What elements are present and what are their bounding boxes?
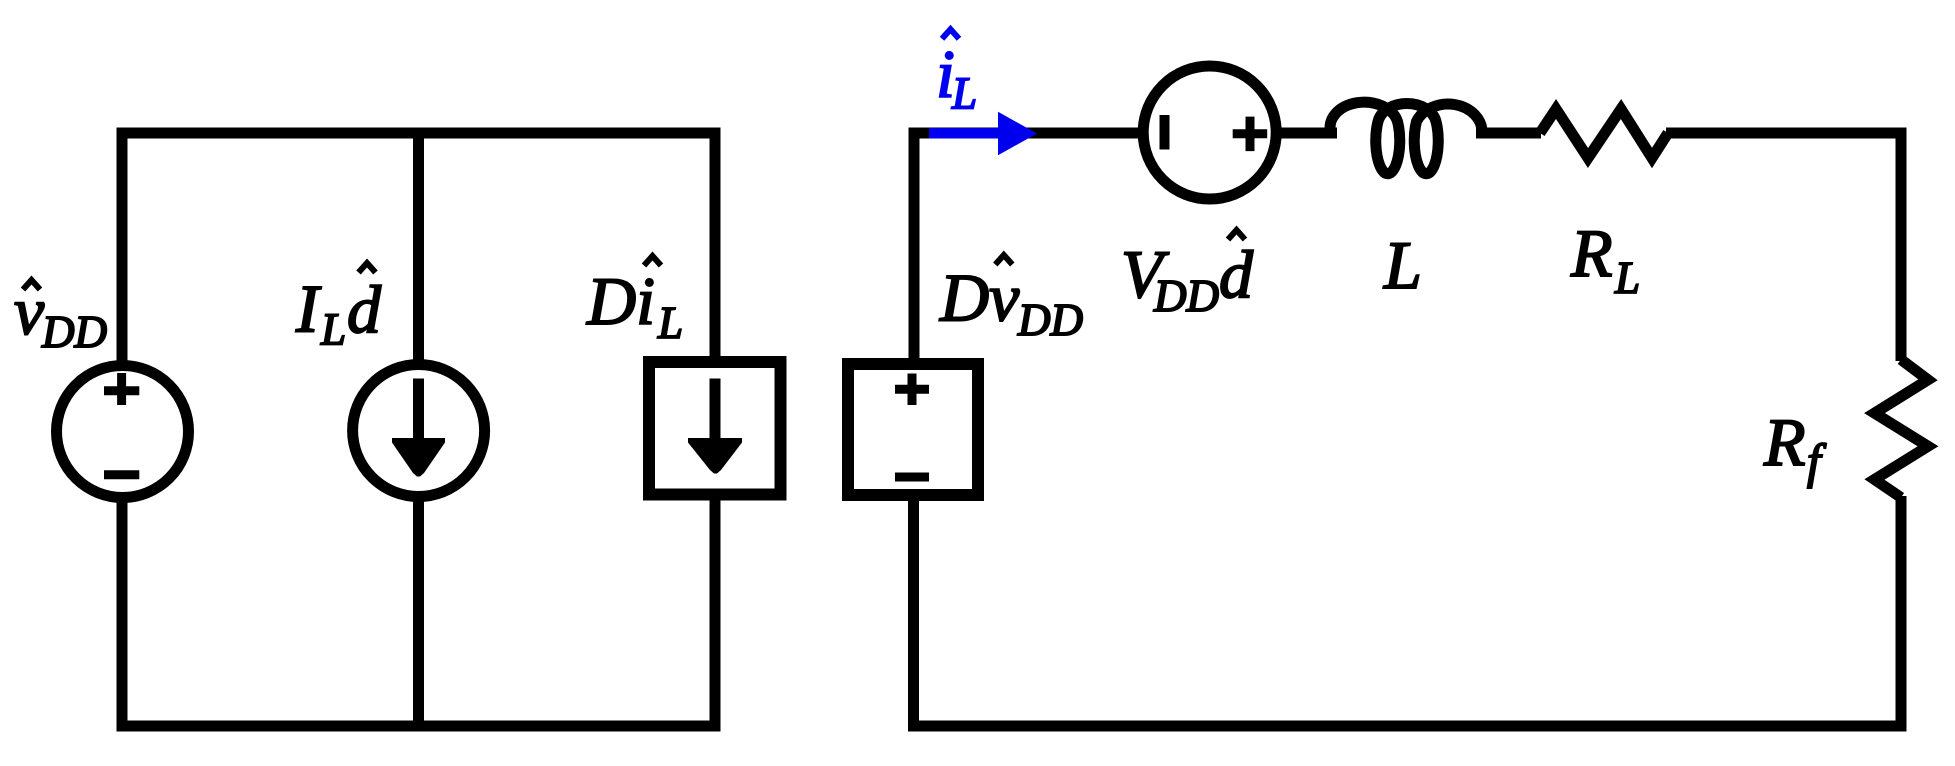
wire middle branch lower xyxy=(413,496,424,732)
svg-text:v: v xyxy=(14,273,45,349)
svg-text:R: R xyxy=(1763,404,1806,480)
dependent source arrow xyxy=(710,379,721,445)
wire right branch lower of right circuit xyxy=(1896,496,1907,732)
svg-text:L: L xyxy=(1614,253,1640,303)
svg-text:I: I xyxy=(295,271,322,347)
label DiL hat xyxy=(644,256,661,266)
wire resistor to top-right corner xyxy=(1666,128,1907,139)
resistor RL zigzag xyxy=(1540,109,1668,158)
dependent current source DiL: square box xyxy=(649,362,781,495)
svg-text:Dv: Dv xyxy=(939,260,1020,336)
wire inductor to resistor xyxy=(1476,128,1541,139)
box V minus sign xyxy=(895,473,929,482)
wire right branch upper of right circuit xyxy=(1896,128,1907,362)
wire right-circuit left branch upper xyxy=(909,128,920,365)
wire left branch upper xyxy=(117,128,128,367)
blue current arrow iL xyxy=(929,112,1037,156)
wire left-loop top xyxy=(117,128,721,139)
dependent voltage source DvDD: square box xyxy=(848,364,978,495)
svg-text:d: d xyxy=(347,272,382,348)
voltage source VDDd: circle xyxy=(1143,66,1276,199)
label DvDD hat xyxy=(995,255,1012,265)
svg-text:DD: DD xyxy=(1153,271,1219,321)
wire left branch lower xyxy=(117,497,128,732)
svg-text:Di: Di xyxy=(586,263,655,339)
svg-text:L: L xyxy=(657,298,683,348)
independent current source ILd: circle xyxy=(353,365,485,497)
svg-text:L: L xyxy=(1383,227,1422,303)
wire right-circuit left branch lower xyxy=(908,495,919,732)
current source I1 arrow xyxy=(413,379,424,445)
label vDD hat xyxy=(23,280,40,290)
wire circle to inductor xyxy=(1275,128,1337,139)
wire middle branch upper xyxy=(413,128,424,367)
V2 minus bar xyxy=(1160,115,1170,150)
V1 minus sign xyxy=(104,470,139,479)
svg-text:R: R xyxy=(1570,215,1613,291)
svg-text:DD: DD xyxy=(41,307,107,357)
wire right branch upper xyxy=(710,128,721,363)
wire left-loop bottom xyxy=(117,721,721,732)
V1 plus sign xyxy=(104,386,139,395)
independent voltage source vDD: circle xyxy=(57,366,189,498)
label VDDd hat xyxy=(1228,230,1245,240)
svg-text:DD: DD xyxy=(1017,295,1083,345)
wire top corner to circle xyxy=(909,128,1145,139)
box V plus sign xyxy=(895,385,929,394)
svg-text:L: L xyxy=(320,305,346,355)
label iL blue hat xyxy=(942,29,959,39)
wire right-circuit bottom xyxy=(908,721,1907,732)
wire right branch lower xyxy=(710,494,721,732)
inductor L coil xyxy=(1330,102,1482,174)
svg-text:d: d xyxy=(1219,237,1254,313)
V2 plus sign xyxy=(1233,129,1268,138)
resistor Rf zigzag xyxy=(1875,360,1929,498)
svg-text:L: L xyxy=(951,69,977,119)
label ILd hat xyxy=(359,263,376,273)
svg-text:f: f xyxy=(1807,434,1827,489)
